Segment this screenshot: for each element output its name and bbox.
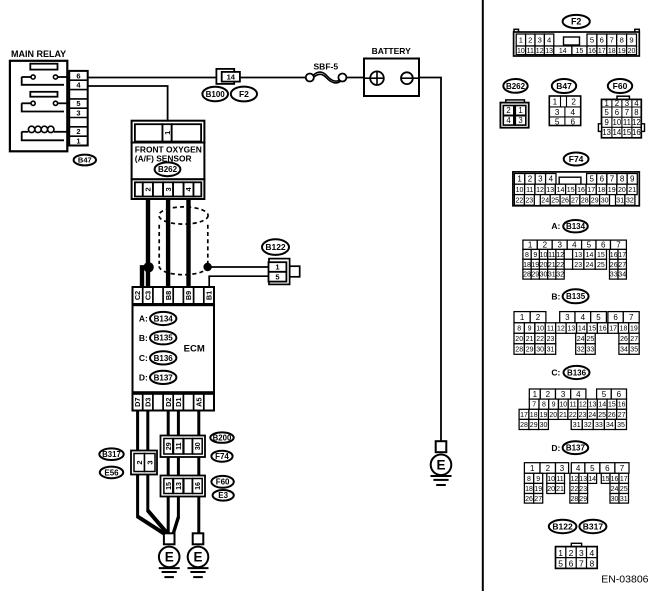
svg-text:17: 17: [609, 326, 617, 333]
svg-text:8: 8: [590, 558, 595, 568]
svg-text:3: 3: [565, 313, 570, 322]
svg-text:24: 24: [611, 486, 619, 493]
svg-text:5: 5: [587, 241, 592, 250]
svg-text:E3: E3: [218, 491, 228, 500]
svg-text:8: 8: [517, 326, 521, 333]
svg-text:B134: B134: [566, 222, 586, 231]
svg-text:8: 8: [620, 175, 625, 184]
svg-text:6: 6: [617, 390, 622, 399]
svg-text:SBF-5: SBF-5: [314, 62, 339, 72]
svg-text:1: 1: [605, 99, 609, 108]
svg-text:14: 14: [227, 73, 236, 82]
svg-text:31: 31: [547, 347, 555, 354]
svg-text:11: 11: [623, 118, 631, 127]
svg-text:1: 1: [520, 313, 525, 322]
svg-text:11: 11: [569, 402, 576, 409]
svg-text:2: 2: [506, 106, 510, 115]
svg-text:30: 30: [601, 197, 609, 204]
svg-text:13: 13: [589, 402, 597, 409]
svg-text:15: 15: [602, 476, 610, 483]
svg-text:3: 3: [555, 108, 560, 117]
svg-text:31: 31: [573, 422, 581, 429]
svg-text:F74: F74: [569, 154, 584, 164]
svg-text:21: 21: [548, 262, 556, 269]
svg-text:B135: B135: [154, 334, 174, 343]
svg-text:A5: A5: [194, 398, 203, 407]
svg-text:20: 20: [515, 336, 523, 343]
svg-text:B136: B136: [154, 354, 174, 363]
svg-text:33: 33: [610, 272, 618, 279]
svg-text:5: 5: [589, 175, 594, 184]
svg-text:4: 4: [572, 241, 577, 250]
svg-text:13: 13: [545, 48, 553, 55]
svg-text:29: 29: [530, 422, 538, 429]
svg-text:5: 5: [605, 108, 610, 117]
svg-text:7: 7: [610, 175, 615, 184]
svg-text:9: 9: [630, 175, 635, 184]
svg-text:24: 24: [586, 262, 594, 269]
svg-text:B1: B1: [205, 291, 214, 300]
svg-text:11: 11: [547, 326, 554, 333]
svg-text:15: 15: [576, 48, 584, 55]
svg-text:EN-03806: EN-03806: [601, 574, 648, 586]
svg-text:18: 18: [608, 48, 616, 55]
svg-text:26: 26: [610, 262, 618, 269]
svg-text:11: 11: [556, 476, 563, 483]
svg-text:24: 24: [577, 336, 585, 343]
svg-text:4: 4: [581, 313, 586, 322]
svg-text:16: 16: [618, 402, 626, 409]
svg-text:14: 14: [598, 402, 606, 409]
svg-text:2: 2: [569, 548, 574, 558]
svg-text:2: 2: [76, 127, 80, 136]
svg-text:32: 32: [584, 422, 592, 429]
svg-text:5: 5: [275, 272, 279, 281]
svg-text:MAIN RELAY: MAIN RELAY: [11, 49, 66, 59]
svg-text:A:: A:: [139, 314, 148, 324]
svg-text:2: 2: [536, 313, 541, 322]
svg-text:E: E: [165, 550, 174, 565]
svg-text:16: 16: [577, 187, 585, 194]
svg-text:14: 14: [588, 476, 596, 483]
svg-text:17: 17: [620, 476, 628, 483]
svg-text:F60: F60: [216, 478, 230, 487]
svg-text:26: 26: [525, 496, 533, 503]
svg-text:C2: C2: [133, 291, 142, 300]
svg-text:3: 3: [518, 116, 522, 125]
svg-text:B47: B47: [556, 81, 572, 91]
svg-text:23: 23: [525, 197, 533, 204]
svg-text:23: 23: [547, 336, 555, 343]
svg-text:4: 4: [634, 99, 639, 108]
svg-text:34: 34: [606, 422, 614, 429]
svg-text:6: 6: [615, 108, 619, 117]
svg-text:25: 25: [551, 197, 559, 204]
svg-text:6: 6: [76, 71, 80, 80]
svg-text:3: 3: [538, 36, 542, 45]
svg-text:1: 1: [517, 175, 522, 184]
svg-text:5: 5: [596, 313, 601, 322]
svg-text:35: 35: [630, 347, 638, 354]
svg-text:1: 1: [553, 97, 558, 106]
svg-text:30: 30: [611, 496, 619, 503]
svg-text:19: 19: [618, 48, 626, 55]
svg-text:3: 3: [625, 99, 629, 108]
svg-text:30: 30: [195, 442, 202, 450]
svg-text:27: 27: [618, 262, 626, 269]
svg-text:C:: C:: [551, 367, 560, 377]
svg-text:B122: B122: [552, 522, 573, 532]
svg-text:5: 5: [590, 36, 594, 45]
svg-text:16: 16: [611, 476, 619, 483]
svg-text:6: 6: [601, 241, 606, 250]
svg-text:10: 10: [516, 187, 524, 194]
svg-text:22: 22: [556, 262, 564, 269]
svg-text:2: 2: [571, 97, 576, 106]
svg-text:1: 1: [528, 241, 533, 250]
svg-text:28: 28: [571, 496, 579, 503]
svg-text:23: 23: [574, 262, 582, 269]
svg-text:1: 1: [76, 137, 80, 146]
svg-text:B134: B134: [154, 314, 174, 323]
svg-text:27: 27: [534, 496, 542, 503]
svg-text:18: 18: [620, 326, 628, 333]
svg-text:4: 4: [576, 464, 581, 473]
svg-text:18: 18: [523, 262, 531, 269]
svg-text:25: 25: [598, 412, 606, 419]
svg-text:10: 10: [613, 118, 622, 127]
svg-text:15: 15: [567, 187, 575, 194]
svg-text:4: 4: [549, 175, 554, 184]
svg-text:9: 9: [528, 326, 532, 333]
svg-text:BATTERY: BATTERY: [372, 46, 412, 56]
svg-text:D1: D1: [174, 398, 183, 407]
svg-text:18: 18: [598, 187, 606, 194]
svg-text:30: 30: [540, 272, 548, 279]
svg-text:7: 7: [610, 36, 614, 45]
svg-text:15: 15: [623, 128, 632, 137]
svg-text:3: 3: [164, 187, 173, 191]
svg-text:E56: E56: [104, 468, 119, 477]
svg-text:C3: C3: [143, 291, 152, 300]
svg-text:13: 13: [602, 128, 611, 137]
svg-text:11: 11: [526, 187, 533, 194]
svg-text:34: 34: [620, 347, 628, 354]
svg-text:15: 15: [597, 252, 605, 259]
svg-text:1: 1: [275, 262, 279, 271]
svg-text:20: 20: [540, 262, 548, 269]
svg-text:25: 25: [587, 336, 595, 343]
svg-text:3: 3: [557, 241, 562, 250]
svg-text:6: 6: [613, 313, 618, 322]
svg-text:24: 24: [541, 197, 549, 204]
svg-text:7: 7: [532, 402, 536, 409]
svg-text:3: 3: [76, 109, 80, 118]
svg-text:31: 31: [616, 197, 624, 204]
svg-text:B317: B317: [102, 450, 121, 459]
svg-text:6: 6: [600, 175, 605, 184]
svg-text:28: 28: [581, 197, 589, 204]
svg-text:28: 28: [520, 422, 528, 429]
svg-text:F2: F2: [239, 89, 249, 99]
svg-text:4: 4: [547, 36, 551, 45]
svg-text:14: 14: [559, 48, 567, 55]
svg-text:B8: B8: [164, 291, 173, 300]
svg-text:16: 16: [195, 482, 202, 490]
svg-text:25: 25: [620, 486, 628, 493]
svg-text:B100: B100: [206, 90, 226, 99]
svg-text:32: 32: [556, 272, 564, 279]
svg-text:28: 28: [515, 347, 523, 354]
svg-text:10: 10: [536, 326, 544, 333]
svg-text:10: 10: [517, 48, 525, 55]
svg-text:29: 29: [591, 197, 599, 204]
svg-text:27: 27: [630, 336, 638, 343]
svg-text:5: 5: [76, 99, 80, 108]
svg-text:14: 14: [557, 187, 565, 194]
svg-text:18: 18: [525, 486, 533, 493]
svg-text:9: 9: [552, 402, 556, 409]
svg-text:7: 7: [616, 241, 621, 250]
svg-text:32: 32: [577, 347, 585, 354]
svg-text:16: 16: [588, 48, 596, 55]
svg-text:6: 6: [569, 558, 574, 568]
svg-text:1: 1: [163, 131, 172, 135]
svg-text:2: 2: [615, 99, 619, 108]
svg-text:F74: F74: [215, 452, 229, 461]
svg-text:4: 4: [590, 548, 595, 558]
svg-text:9: 9: [536, 476, 540, 483]
svg-text:29: 29: [166, 442, 173, 450]
svg-text:4: 4: [506, 116, 511, 125]
svg-text:11: 11: [548, 252, 555, 259]
svg-text:24: 24: [588, 412, 596, 419]
svg-text:ECM: ECM: [184, 344, 205, 355]
svg-text:D:: D:: [139, 373, 148, 383]
svg-text:2: 2: [144, 187, 153, 191]
svg-text:7: 7: [629, 313, 634, 322]
svg-text:19: 19: [630, 326, 638, 333]
svg-text:26: 26: [561, 197, 569, 204]
svg-text:30: 30: [540, 422, 548, 429]
svg-text:21: 21: [556, 486, 564, 493]
svg-text:16: 16: [610, 252, 618, 259]
svg-text:12: 12: [536, 48, 544, 55]
svg-text:F2: F2: [571, 17, 582, 27]
svg-text:5: 5: [558, 558, 563, 568]
svg-text:12: 12: [571, 476, 579, 483]
svg-text:9: 9: [533, 252, 537, 259]
svg-text:19: 19: [534, 486, 542, 493]
svg-text:D3: D3: [143, 398, 152, 407]
svg-text:7: 7: [579, 558, 584, 568]
svg-text:2: 2: [528, 175, 533, 184]
svg-text:B47: B47: [78, 156, 92, 165]
svg-text:2: 2: [546, 390, 551, 399]
svg-text:4: 4: [576, 390, 581, 399]
svg-text:B137: B137: [154, 373, 174, 382]
svg-text:19: 19: [531, 262, 539, 269]
svg-text:29: 29: [579, 496, 587, 503]
svg-text:16: 16: [632, 128, 641, 137]
svg-text:B136: B136: [567, 368, 587, 377]
svg-text:10: 10: [559, 402, 567, 409]
svg-text:27: 27: [571, 197, 579, 204]
svg-text:34: 34: [618, 272, 626, 279]
svg-text:8: 8: [525, 252, 529, 259]
svg-text:3: 3: [561, 390, 566, 399]
svg-text:26: 26: [620, 336, 628, 343]
svg-text:16: 16: [599, 326, 607, 333]
svg-text:15: 15: [608, 402, 616, 409]
svg-text:D2: D2: [164, 398, 173, 407]
svg-text:22: 22: [571, 486, 579, 493]
svg-text:B262: B262: [158, 165, 178, 174]
svg-text:18: 18: [530, 412, 538, 419]
svg-text:10: 10: [540, 252, 548, 259]
svg-text:12: 12: [556, 252, 564, 259]
svg-text:E: E: [193, 550, 202, 565]
svg-text:19: 19: [608, 187, 616, 194]
svg-text:12: 12: [579, 402, 587, 409]
svg-text:28: 28: [523, 272, 531, 279]
svg-text:12: 12: [536, 187, 544, 194]
svg-text:25: 25: [597, 262, 605, 269]
svg-text:8: 8: [634, 108, 638, 117]
svg-text:11: 11: [527, 48, 534, 55]
svg-text:23: 23: [579, 486, 587, 493]
svg-text:B135: B135: [566, 292, 586, 301]
svg-text:1: 1: [518, 106, 522, 115]
svg-text:5: 5: [555, 117, 560, 126]
svg-text:15: 15: [588, 326, 596, 333]
svg-text:27: 27: [618, 412, 626, 419]
svg-text:B:: B:: [139, 333, 148, 343]
svg-text:3: 3: [538, 175, 543, 184]
svg-text:13: 13: [574, 252, 582, 259]
svg-text:8: 8: [542, 402, 546, 409]
svg-text:15: 15: [166, 482, 173, 490]
svg-text:35: 35: [617, 422, 625, 429]
svg-text:B137: B137: [566, 444, 586, 453]
svg-text:31: 31: [620, 496, 628, 503]
svg-text:3: 3: [560, 464, 565, 473]
svg-text:9: 9: [629, 36, 633, 45]
svg-text:13: 13: [579, 476, 587, 483]
svg-text:2: 2: [543, 241, 548, 250]
svg-text:20: 20: [549, 412, 557, 419]
svg-text:6: 6: [605, 464, 610, 473]
svg-text:17: 17: [598, 48, 606, 55]
svg-text:B122: B122: [265, 242, 286, 252]
svg-text:B317: B317: [583, 522, 604, 532]
svg-text:21: 21: [628, 187, 636, 194]
svg-text:4: 4: [571, 108, 576, 117]
svg-text:1: 1: [533, 390, 538, 399]
svg-text:17: 17: [587, 187, 595, 194]
svg-text:3: 3: [579, 548, 584, 558]
svg-text:20: 20: [547, 486, 555, 493]
svg-text:17: 17: [520, 412, 528, 419]
svg-text:6: 6: [600, 36, 604, 45]
svg-text:10: 10: [547, 476, 555, 483]
svg-text:13: 13: [568, 326, 576, 333]
svg-text:22: 22: [516, 197, 524, 204]
svg-text:B:: B:: [551, 292, 560, 302]
svg-text:1: 1: [519, 36, 523, 45]
svg-text:5: 5: [602, 390, 607, 399]
svg-text:21: 21: [559, 412, 567, 419]
svg-text:14: 14: [578, 326, 586, 333]
svg-text:1: 1: [558, 548, 563, 558]
svg-text:14: 14: [586, 252, 594, 259]
svg-text:3: 3: [145, 460, 154, 464]
svg-text:23: 23: [579, 412, 587, 419]
svg-text:F60: F60: [613, 81, 628, 91]
svg-text:6: 6: [571, 117, 576, 126]
svg-text:7: 7: [620, 464, 625, 473]
svg-text:22: 22: [536, 336, 544, 343]
svg-text:12: 12: [557, 326, 565, 333]
svg-text:29: 29: [531, 272, 539, 279]
svg-text:20: 20: [628, 48, 636, 55]
svg-text:B9: B9: [184, 291, 193, 300]
svg-text:2: 2: [546, 464, 551, 473]
svg-text:5: 5: [590, 464, 595, 473]
svg-text:29: 29: [526, 347, 534, 354]
svg-text:B262: B262: [506, 82, 526, 91]
svg-text:17: 17: [618, 252, 626, 259]
svg-text:11: 11: [176, 442, 183, 450]
svg-text:12: 12: [632, 118, 641, 127]
svg-text:D7: D7: [133, 398, 142, 407]
svg-text:22: 22: [569, 412, 577, 419]
svg-text:19: 19: [540, 412, 548, 419]
svg-text:33: 33: [595, 422, 603, 429]
svg-text:26: 26: [608, 412, 616, 419]
svg-text:32: 32: [626, 197, 634, 204]
svg-text:A:: A:: [551, 221, 560, 231]
svg-text:33: 33: [587, 347, 595, 354]
svg-text:31: 31: [548, 272, 556, 279]
svg-text:2: 2: [528, 36, 532, 45]
svg-text:30: 30: [536, 347, 544, 354]
svg-text:21: 21: [526, 336, 534, 343]
svg-text:13: 13: [176, 482, 183, 490]
svg-text:D:: D:: [551, 443, 560, 453]
svg-text:8: 8: [620, 36, 624, 45]
svg-text:C:: C:: [139, 353, 148, 363]
svg-text:13: 13: [546, 187, 554, 194]
svg-text:8: 8: [527, 476, 531, 483]
svg-text:9: 9: [605, 118, 609, 127]
svg-text:20: 20: [618, 187, 626, 194]
svg-text:E: E: [436, 458, 445, 473]
svg-text:B200: B200: [213, 433, 232, 442]
svg-text:14: 14: [613, 128, 622, 137]
svg-text:1: 1: [530, 464, 535, 473]
svg-text:2: 2: [135, 460, 144, 464]
svg-text:7: 7: [625, 108, 629, 117]
